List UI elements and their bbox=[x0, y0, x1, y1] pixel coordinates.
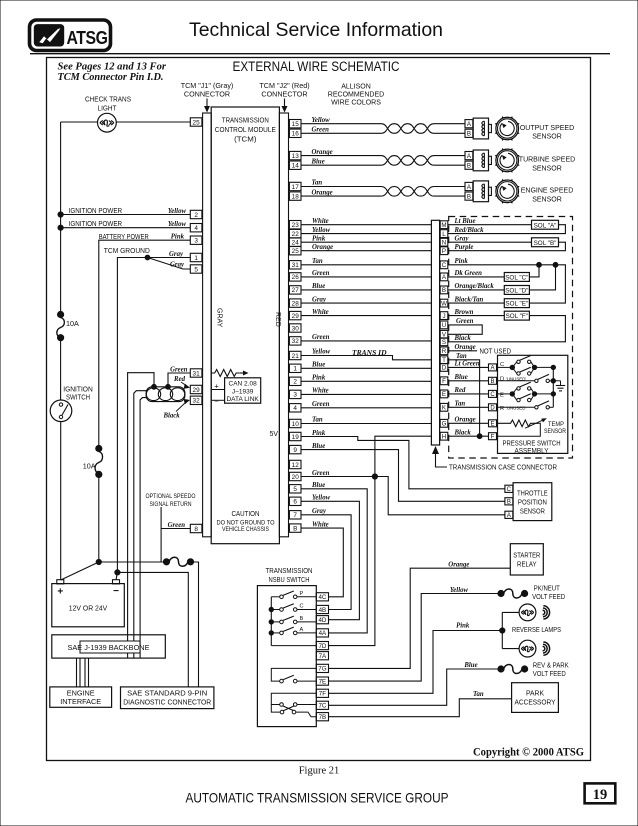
case connector pin A bbox=[440, 273, 448, 281]
TCM J1 pin 29 bbox=[190, 385, 202, 393]
pressure switch pin D bbox=[489, 404, 497, 411]
svg-text:IGNITION POWER: IGNITION POWER bbox=[69, 206, 123, 215]
wire TCM ground bbox=[117, 258, 190, 573]
svg-text:3: 3 bbox=[293, 392, 297, 399]
TCM J2 pin B bbox=[289, 524, 301, 532]
TCM J2 pin 18 bbox=[289, 192, 301, 200]
svg-text:7C: 7C bbox=[318, 703, 326, 710]
svg-text:SOL "F": SOL "F" bbox=[506, 313, 528, 320]
svg-text:CAUTION: CAUTION bbox=[232, 509, 260, 518]
svg-text:6: 6 bbox=[293, 499, 297, 506]
sensor engine speed bbox=[496, 180, 519, 203]
svg-text:BATTERY POWER: BATTERY POWER bbox=[99, 232, 149, 241]
wire white row y224.7 bbox=[301, 224, 431, 226]
pressure switch pin B bbox=[489, 377, 497, 384]
svg-text:Red/Black: Red/Black bbox=[454, 227, 485, 234]
svg-text:J: J bbox=[442, 313, 445, 320]
NSBU pin 4B bbox=[316, 605, 328, 613]
svg-text:IGNITION POWER: IGNITION POWER bbox=[69, 219, 123, 228]
TCM main box bbox=[211, 107, 279, 544]
svg-text:CONNECTOR: CONNECTOR bbox=[184, 90, 230, 99]
svg-text:Green: Green bbox=[312, 401, 330, 408]
TCM J2 pin 26 bbox=[289, 273, 301, 281]
node pink feed 2 bbox=[553, 262, 558, 267]
TCM J2 pin 2 bbox=[289, 377, 301, 385]
svg-text:29: 29 bbox=[292, 313, 300, 320]
svg-text:C: C bbox=[300, 604, 304, 610]
svg-text:Blue: Blue bbox=[311, 482, 325, 489]
svg-text:TCM Connector Pin I.D.: TCM Connector Pin I.D. bbox=[58, 72, 164, 83]
svg-text:7G: 7G bbox=[318, 666, 326, 673]
wire ignition power 2 bbox=[61, 227, 191, 229]
svg-text:VOLT FEED: VOLT FEED bbox=[532, 594, 565, 601]
svg-text:Pink: Pink bbox=[312, 430, 326, 437]
svg-text:4: 4 bbox=[293, 405, 297, 412]
svg-text:20: 20 bbox=[292, 474, 300, 481]
svg-text:Tan: Tan bbox=[473, 691, 484, 698]
TCM J2 pin 4 bbox=[289, 404, 301, 412]
svg-text:32: 32 bbox=[292, 338, 300, 345]
case connector pin L bbox=[440, 230, 448, 238]
svg-text:ALLISON: ALLISON bbox=[341, 84, 371, 91]
wire blue row y289.9 bbox=[301, 289, 431, 291]
svg-text:VEHICLE CHASSIS: VEHICLE CHASSIS bbox=[222, 526, 269, 533]
case connector pin H bbox=[440, 432, 448, 440]
CAN data link box bbox=[225, 378, 261, 403]
TCM J2 pin 16 bbox=[289, 129, 301, 137]
wire CAN shield up-over-down bbox=[128, 373, 154, 658]
NSBU pin 7E bbox=[316, 677, 328, 685]
SAE J-1939 backbone box bbox=[52, 635, 166, 658]
wire trans id yellow bbox=[301, 356, 431, 360]
svg-text:Gray: Gray bbox=[312, 296, 327, 303]
NSBU switch box bbox=[257, 586, 316, 727]
wire pink row y242.2 bbox=[301, 241, 431, 243]
wire turbine speed pair bbox=[301, 155, 381, 157]
svg-text:+: + bbox=[57, 587, 63, 598]
svg-text:Lt Blue: Lt Blue bbox=[454, 218, 476, 225]
svg-text:SOL "B": SOL "B" bbox=[534, 240, 557, 247]
reverse lamps bbox=[501, 612, 503, 648]
svg-text:SENSOR: SENSOR bbox=[532, 165, 562, 172]
wire backbone to engine interface pair 2 bbox=[84, 658, 86, 687]
ground rail bbox=[552, 367, 554, 407]
svg-text:RED: RED bbox=[274, 312, 281, 327]
solenoid SOL C bbox=[504, 273, 529, 282]
svg-text:32: 32 bbox=[193, 398, 201, 405]
wire orange row y250.7 bbox=[301, 250, 431, 252]
throttle position sensor box bbox=[513, 483, 552, 521]
wire green pin31 bbox=[168, 373, 190, 387]
TCM J2 pin 20 bbox=[289, 472, 301, 480]
svg-text:SENSOR: SENSOR bbox=[532, 196, 562, 203]
svg-text:Yellow: Yellow bbox=[312, 495, 331, 502]
svg-text:SAE STANDARD 9-PIN: SAE STANDARD 9-PIN bbox=[127, 689, 207, 698]
pressure switch pin E bbox=[489, 420, 497, 427]
wire SOL C return bbox=[529, 265, 539, 277]
svg-text:Pink: Pink bbox=[456, 622, 470, 629]
wire blue pin9 to throttle B bbox=[301, 450, 505, 502]
svg-text:2: 2 bbox=[194, 212, 198, 219]
TCM J2 pin 25 bbox=[289, 247, 301, 255]
case connector pin E bbox=[440, 390, 448, 398]
wire white row y394.4 bbox=[301, 393, 431, 395]
svg-text:Pink: Pink bbox=[455, 258, 469, 265]
TCM J2 pin 28 bbox=[289, 299, 301, 307]
svg-text:7: 7 bbox=[293, 512, 297, 519]
svg-text:White: White bbox=[312, 521, 329, 528]
svg-text:C: C bbox=[507, 487, 512, 493]
case connector pin D bbox=[440, 364, 448, 372]
wire yellow row y233.6 bbox=[301, 233, 431, 235]
svg-text:Orange: Orange bbox=[455, 416, 476, 423]
TCM J2 pin 6 bbox=[289, 497, 301, 505]
TCM J2 pin 14 bbox=[289, 161, 301, 169]
svg-text:TEMP: TEMP bbox=[548, 422, 564, 428]
engine interface box bbox=[50, 687, 112, 707]
svg-text:CONTROL MODULE: CONTROL MODULE bbox=[215, 125, 276, 134]
svg-text:7B: 7B bbox=[319, 714, 327, 721]
svg-text:7D: 7D bbox=[318, 643, 326, 650]
node ignition power 1 bbox=[58, 212, 63, 217]
wire fuse to ignition switch bbox=[60, 338, 62, 401]
TCM J2 pin 1 bbox=[289, 364, 301, 372]
svg-text:TRANSMISSION: TRANSMISSION bbox=[222, 116, 269, 125]
throttle pin A bbox=[505, 511, 513, 518]
svg-text:27: 27 bbox=[292, 287, 300, 294]
svg-text:Green: Green bbox=[312, 270, 330, 277]
fuse 10A upper bbox=[58, 311, 64, 317]
svg-text:31: 31 bbox=[193, 370, 201, 377]
svg-text:4B: 4B bbox=[319, 607, 327, 614]
svg-text:See Pages 12 and 13 For: See Pages 12 and 13 For bbox=[58, 62, 167, 73]
node ignition power 2 bbox=[58, 225, 63, 230]
svg-text:J−1939: J−1939 bbox=[232, 388, 254, 395]
svg-text:WIRE COLORS: WIRE COLORS bbox=[331, 100, 381, 107]
svg-text:CHECK TRANS: CHECK TRANS bbox=[85, 94, 131, 103]
svg-text:7F: 7F bbox=[319, 691, 326, 698]
solenoid SOL F bbox=[504, 311, 529, 320]
svg-text:ATSG: ATSG bbox=[67, 28, 108, 48]
case connector pin N bbox=[440, 238, 448, 246]
svg-text:AUTOMATIC TRANSMISSION SERVICE: AUTOMATIC TRANSMISSION SERVICE GROUP bbox=[186, 790, 449, 806]
svg-text:29: 29 bbox=[193, 387, 201, 394]
svg-text:THROTTLE: THROTTLE bbox=[517, 490, 548, 497]
NSBU pin 7A bbox=[316, 652, 328, 660]
svg-text:Green: Green bbox=[168, 522, 186, 529]
wire orange 7G to starter relay bbox=[329, 568, 511, 668]
svg-text:Tan: Tan bbox=[312, 417, 323, 424]
node pink feed 1 bbox=[537, 262, 542, 267]
svg-text:Dk Green: Dk Green bbox=[454, 270, 483, 277]
case connector pin R bbox=[440, 347, 448, 355]
TCM J1 pin 1 bbox=[190, 253, 202, 261]
svg-text:10A: 10A bbox=[83, 461, 96, 470]
svg-text:OUTPUT SPEED: OUTPUT SPEED bbox=[520, 125, 574, 132]
NSBU pin 7G bbox=[316, 664, 328, 672]
svg-text:'UNUSED': 'UNUSED' bbox=[506, 406, 526, 411]
svg-text:E: E bbox=[490, 422, 494, 428]
wire tan row y264.8 bbox=[301, 264, 431, 266]
svg-text:19: 19 bbox=[593, 787, 608, 803]
svg-text:17: 17 bbox=[292, 184, 300, 191]
wire green row y340.9 bbox=[301, 340, 431, 342]
TCM J1 gray connector strip bbox=[203, 113, 212, 537]
svg-text:Black: Black bbox=[454, 429, 472, 436]
svg-text:7E: 7E bbox=[319, 678, 327, 685]
battery 12V or 24V bbox=[52, 584, 125, 627]
TCM J2 pin 23 bbox=[289, 221, 301, 229]
svg-text:Pink: Pink bbox=[312, 375, 326, 382]
svg-text:W: W bbox=[441, 300, 447, 307]
wire Orange/Black to SOL D bbox=[448, 289, 505, 291]
case connector pin P bbox=[440, 247, 448, 255]
svg-text:Green: Green bbox=[312, 127, 330, 134]
svg-text:B: B bbox=[442, 287, 446, 294]
svg-text:TRANSMISSION CASE CONNECTOR: TRANSMISSION CASE CONNECTOR bbox=[449, 463, 557, 472]
wire pin29 to CAN box bbox=[211, 389, 224, 391]
wire red to pressure switch C bbox=[448, 393, 489, 395]
wire black H row to 7D bbox=[329, 436, 432, 645]
svg-text:B: B bbox=[490, 379, 494, 385]
solenoid SOL B bbox=[532, 238, 559, 247]
svg-text:R: R bbox=[442, 348, 447, 355]
wire CAN H down bbox=[134, 391, 147, 658]
svg-text:H: H bbox=[442, 434, 446, 441]
svg-text:23: 23 bbox=[292, 222, 300, 229]
NSBU neutral switch bbox=[271, 668, 316, 681]
node TCM ground split bbox=[145, 255, 150, 260]
svg-text:12: 12 bbox=[292, 462, 300, 469]
wire gray row y303.1 bbox=[301, 302, 431, 304]
svg-text:Blue: Blue bbox=[454, 374, 468, 381]
svg-text:25: 25 bbox=[292, 248, 300, 255]
svg-text:Orange: Orange bbox=[455, 344, 476, 351]
svg-text:Blue: Blue bbox=[311, 283, 325, 290]
TCM J2 pin 9 bbox=[289, 445, 301, 453]
svg-text:B: B bbox=[467, 193, 471, 200]
TCM J2 pin 32 bbox=[289, 337, 301, 345]
svg-text:U: U bbox=[442, 322, 446, 329]
case connector pin B bbox=[440, 286, 448, 294]
node H-green junction bbox=[372, 474, 377, 479]
svg-text:24: 24 bbox=[292, 240, 300, 247]
svg-text:Red: Red bbox=[454, 387, 467, 394]
svg-text:−: − bbox=[113, 586, 119, 597]
svg-text:4: 4 bbox=[194, 225, 198, 232]
case connector pin J bbox=[440, 312, 448, 320]
park accessory box bbox=[512, 683, 559, 713]
pressure switch pin A bbox=[489, 364, 497, 371]
svg-text:S: S bbox=[442, 339, 446, 346]
svg-text:OPTIONAL SPEEDO: OPTIONAL SPEEDO bbox=[146, 493, 196, 500]
svg-text:2: 2 bbox=[293, 379, 297, 386]
svg-text:ASSEMBLY: ASSEMBLY bbox=[515, 448, 549, 455]
wire fuse2 to junction bbox=[98, 474, 100, 562]
svg-text:STARTER: STARTER bbox=[513, 553, 540, 560]
svg-text:Pink: Pink bbox=[171, 234, 185, 241]
TCM J1 pin 3 bbox=[190, 236, 202, 244]
case connector pin T bbox=[440, 356, 448, 364]
svg-text:Brown: Brown bbox=[454, 309, 474, 316]
TCM J2 pin 22 bbox=[289, 229, 301, 237]
pressure switch pin F bbox=[489, 433, 497, 440]
TCM J2 red connector strip bbox=[279, 113, 288, 537]
svg-text:SENSOR: SENSOR bbox=[544, 429, 567, 435]
header underline bbox=[30, 53, 610, 55]
svg-text:14: 14 bbox=[292, 163, 300, 170]
svg-text:Blue: Blue bbox=[311, 443, 325, 450]
wire yellow pin6 to NSBU 4D bbox=[301, 501, 359, 619]
starter relay box bbox=[510, 544, 543, 575]
case connector pin F bbox=[440, 377, 448, 385]
svg-text:B: B bbox=[507, 500, 511, 506]
wire blue row y368.3 bbox=[301, 367, 431, 369]
node battery feed junction bbox=[96, 559, 101, 564]
temp sensor resistor bbox=[497, 420, 539, 427]
svg-text:22: 22 bbox=[292, 231, 300, 238]
TCM J2 pin 17 bbox=[289, 182, 301, 190]
svg-text:Green: Green bbox=[312, 334, 330, 341]
TCM J2 pin 7 bbox=[289, 511, 301, 519]
wire CAN L down bbox=[140, 398, 146, 658]
svg-text:21: 21 bbox=[292, 353, 300, 360]
svg-text:TRANSMISSION: TRANSMISSION bbox=[266, 566, 313, 575]
svg-text:Lt Green: Lt Green bbox=[454, 361, 480, 368]
svg-text:12V OR 24V: 12V OR 24V bbox=[69, 604, 108, 613]
TCM J2 pin 13 bbox=[289, 151, 301, 159]
svg-text:PARK: PARK bbox=[526, 690, 544, 697]
wire speedo return bbox=[160, 507, 162, 562]
svg-text:Yellow: Yellow bbox=[168, 221, 187, 228]
svg-text:A: A bbox=[507, 513, 511, 519]
svg-text:26: 26 bbox=[292, 274, 300, 281]
node twisted pair top left bbox=[152, 384, 157, 389]
svg-text:POSITION: POSITION bbox=[518, 499, 547, 506]
svg-text:8: 8 bbox=[194, 526, 198, 533]
case connector pin W bbox=[440, 299, 448, 307]
TCM J2 pin 30 bbox=[289, 324, 301, 332]
svg-text:Technical Service Information: Technical Service Information bbox=[189, 19, 443, 41]
case connector pin K bbox=[440, 403, 448, 411]
diagnostic connector box bbox=[121, 687, 214, 709]
svg-text:28: 28 bbox=[292, 300, 300, 307]
svg-text:10A: 10A bbox=[66, 319, 79, 328]
case connector pin V bbox=[440, 330, 448, 338]
svg-text:SOL "C": SOL "C" bbox=[505, 275, 528, 282]
svg-text:TCM GROUND: TCM GROUND bbox=[104, 246, 150, 255]
svg-text:SIGNAL RETURN: SIGNAL RETURN bbox=[150, 501, 192, 508]
wire SOL F return to S black bbox=[448, 316, 566, 342]
svg-text:G: G bbox=[442, 421, 447, 428]
svg-text:PRESSURE SWITCH: PRESSURE SWITCH bbox=[503, 440, 561, 447]
TCM J2 pin 5 bbox=[289, 485, 301, 493]
svg-text:TURBINE SPEED: TURBINE SPEED bbox=[519, 157, 575, 164]
svg-text:White: White bbox=[312, 309, 329, 316]
svg-text:(TCM): (TCM) bbox=[234, 135, 256, 144]
pressure switch assembly box bbox=[498, 355, 568, 453]
svg-text:ENGINE SPEED: ENGINE SPEED bbox=[521, 188, 574, 195]
node T-H junction bbox=[477, 434, 482, 439]
NSBU selector switches bbox=[271, 596, 279, 598]
wire SOL B return to P bbox=[448, 242, 566, 251]
throttle pin C bbox=[505, 485, 513, 492]
check trans light lamp bbox=[98, 113, 117, 132]
svg-text:16: 16 bbox=[292, 131, 300, 138]
svg-text:18: 18 bbox=[292, 193, 300, 200]
svg-text:CAN 2.08: CAN 2.08 bbox=[229, 381, 258, 388]
wire junction to diag wavy bbox=[99, 561, 167, 563]
wire SOL D return bbox=[529, 265, 555, 290]
wire yellow 7E to pk/neut bbox=[329, 594, 499, 682]
svg-text:13: 13 bbox=[292, 153, 300, 160]
wire blue to pressure switch B bbox=[448, 380, 489, 382]
wire orange not used bbox=[448, 350, 477, 352]
svg-text:5: 5 bbox=[194, 266, 198, 273]
sensor output speed bbox=[496, 117, 519, 140]
wire tan T row down to H bbox=[448, 360, 480, 436]
svg-text:Green: Green bbox=[456, 318, 474, 325]
solenoid SOL E bbox=[504, 299, 529, 308]
svg-text:Pink: Pink bbox=[312, 235, 326, 242]
NSBU pin 7B bbox=[316, 713, 328, 721]
wire lt green to pressure switch A bbox=[448, 366, 489, 368]
sensor turbine speed bbox=[496, 149, 519, 172]
svg-text:E: E bbox=[442, 391, 446, 398]
wire junction to battery + bbox=[61, 562, 99, 580]
svg-text:Blue: Blue bbox=[311, 158, 325, 165]
TCM J2 pin 24 bbox=[289, 238, 301, 246]
svg-text:D: D bbox=[500, 377, 504, 383]
svg-text:TRANS ID: TRANS ID bbox=[352, 349, 387, 357]
fuse 10A lower bbox=[96, 445, 102, 451]
wire white row y315.6 bbox=[301, 315, 431, 317]
wire blue 7C to rev&park bbox=[329, 669, 499, 705]
svg-text:B: B bbox=[300, 616, 304, 622]
solenoid SOL D bbox=[504, 286, 529, 295]
node twisted pair top right bbox=[166, 384, 171, 389]
wire SOL A return to L bbox=[448, 225, 566, 234]
TCM J2 pin 3 bbox=[289, 390, 301, 398]
terminating resistor bbox=[211, 370, 240, 377]
wire ignition power 1 bbox=[61, 214, 191, 216]
svg-text:P: P bbox=[300, 591, 304, 597]
wire Pink common feed bbox=[448, 265, 566, 303]
NSBU pin 4C bbox=[316, 593, 328, 601]
svg-text:Yellow: Yellow bbox=[312, 117, 331, 124]
case connector pin S bbox=[440, 338, 448, 346]
svg-text:VOLT FEED: VOLT FEED bbox=[533, 671, 566, 678]
svg-text:Red: Red bbox=[173, 376, 186, 383]
chassis ground symbol bbox=[553, 380, 560, 382]
svg-text:Gray: Gray bbox=[312, 508, 327, 515]
connector output speed sensor bbox=[465, 120, 473, 128]
TCM J2 pin 10 bbox=[289, 419, 301, 427]
svg-text:5V: 5V bbox=[269, 431, 278, 438]
svg-text:NSBU SWITCH: NSBU SWITCH bbox=[269, 575, 310, 584]
svg-text:Orange/Black: Orange/Black bbox=[455, 283, 495, 290]
case connector pin U bbox=[440, 321, 448, 329]
svg-text:F: F bbox=[442, 378, 446, 385]
svg-text:4D: 4D bbox=[318, 617, 326, 624]
svg-text:Tan: Tan bbox=[456, 353, 467, 360]
svg-text:Tan: Tan bbox=[312, 258, 323, 265]
svg-text:CONNECTOR: CONNECTOR bbox=[261, 90, 307, 99]
svg-text:5: 5 bbox=[293, 486, 297, 493]
svg-text:M: M bbox=[441, 222, 446, 229]
svg-text:F: F bbox=[491, 435, 495, 441]
wire Gray to SOL B bbox=[448, 241, 532, 243]
